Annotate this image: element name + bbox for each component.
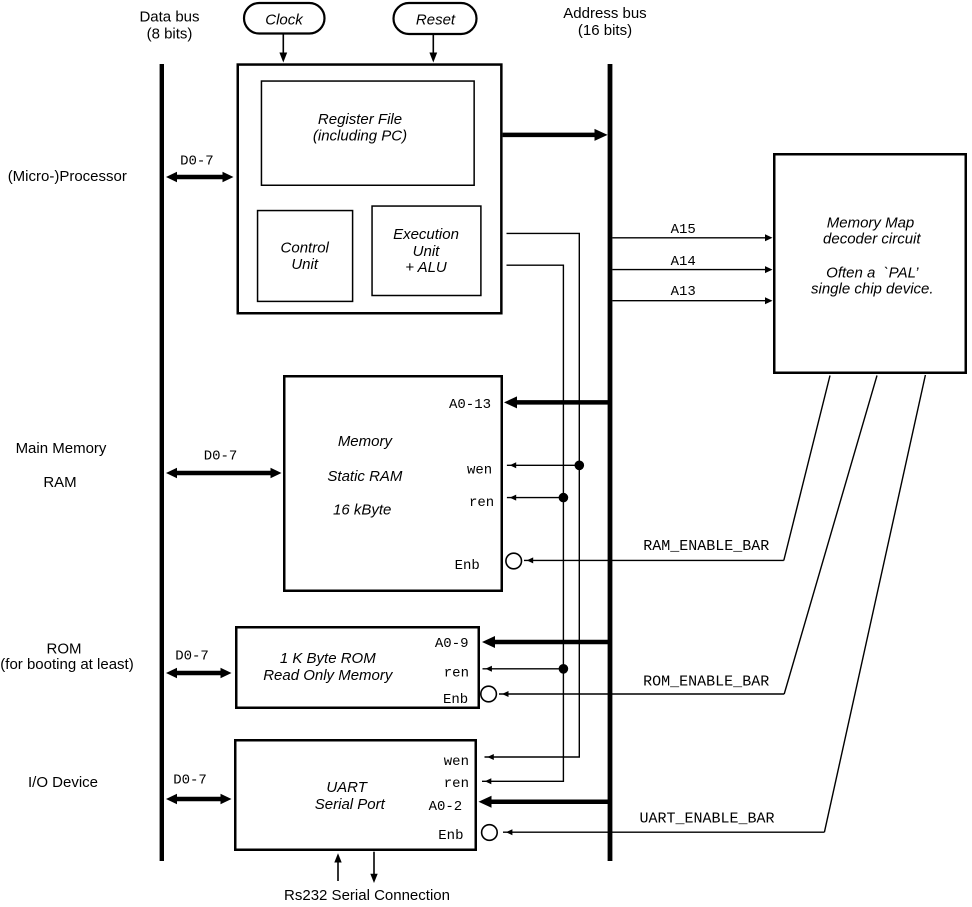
svg-text:wen: wen bbox=[444, 754, 469, 770]
svg-text:(16 bits): (16 bits) bbox=[578, 22, 632, 39]
svg-text:Unit: Unit bbox=[291, 256, 319, 273]
svg-text:Enb: Enb bbox=[438, 828, 463, 844]
svg-text:D0-7: D0-7 bbox=[175, 649, 209, 665]
svg-text:Memory Map: Memory Map bbox=[827, 215, 915, 232]
svg-text:(for booting at least): (for booting at least) bbox=[0, 656, 133, 673]
svg-text:(8 bits): (8 bits) bbox=[147, 26, 193, 43]
svg-text:(including PC): (including PC) bbox=[313, 128, 407, 145]
svg-text:Main Memory: Main Memory bbox=[16, 440, 107, 457]
svg-text:Unit: Unit bbox=[413, 243, 441, 260]
svg-text:ROM: ROM bbox=[47, 641, 82, 658]
svg-text:Enb: Enb bbox=[455, 558, 480, 574]
svg-text:Address bus: Address bus bbox=[563, 5, 646, 22]
svg-text:A15: A15 bbox=[671, 222, 696, 238]
svg-text:Often a `PAL’: Often a `PAL’ bbox=[826, 265, 919, 282]
svg-text:Clock: Clock bbox=[265, 11, 304, 28]
svg-text:ren: ren bbox=[444, 666, 469, 682]
svg-text:Rs232 Serial Connection: Rs232 Serial Connection bbox=[284, 887, 450, 904]
svg-text:ren: ren bbox=[469, 495, 494, 511]
svg-text:Execution: Execution bbox=[393, 226, 459, 243]
svg-text:UART_ENABLE_BAR: UART_ENABLE_BAR bbox=[639, 810, 774, 827]
svg-text:RAM_ENABLE_BAR: RAM_ENABLE_BAR bbox=[643, 538, 769, 555]
svg-text:A14: A14 bbox=[671, 254, 696, 270]
svg-text:A0-2: A0-2 bbox=[429, 799, 463, 815]
svg-text:A0-9: A0-9 bbox=[435, 636, 469, 652]
svg-text:RAM: RAM bbox=[43, 474, 76, 491]
svg-text:(Micro-)Processor: (Micro-)Processor bbox=[8, 168, 127, 185]
svg-text:Static RAM: Static RAM bbox=[327, 468, 403, 485]
svg-text:ROM_ENABLE_BAR: ROM_ENABLE_BAR bbox=[643, 674, 769, 691]
svg-text:D0-7: D0-7 bbox=[173, 773, 207, 789]
svg-text:ren: ren bbox=[444, 776, 469, 792]
svg-text:+ ALU: + ALU bbox=[405, 259, 447, 276]
svg-text:A13: A13 bbox=[671, 284, 696, 300]
svg-text:decoder circuit: decoder circuit bbox=[823, 231, 921, 248]
svg-text:Memory: Memory bbox=[338, 433, 394, 450]
svg-text:Data bus: Data bus bbox=[139, 9, 199, 26]
svg-text:Reset: Reset bbox=[416, 11, 456, 28]
svg-text:D0-7: D0-7 bbox=[204, 449, 238, 465]
svg-text:1 K Byte ROM: 1 K Byte ROM bbox=[280, 650, 376, 667]
svg-text:I/O Device: I/O Device bbox=[28, 774, 98, 791]
svg-text:Control: Control bbox=[281, 240, 330, 257]
svg-text:Serial Port: Serial Port bbox=[315, 796, 386, 813]
svg-text:UART: UART bbox=[326, 779, 368, 796]
svg-text:Register File: Register File bbox=[318, 111, 402, 128]
svg-text:Read Only Memory: Read Only Memory bbox=[263, 667, 394, 684]
svg-text:Enb: Enb bbox=[443, 692, 468, 708]
svg-text:wen: wen bbox=[467, 462, 492, 478]
svg-text:16 kByte: 16 kByte bbox=[333, 502, 391, 519]
svg-text:A0-13: A0-13 bbox=[449, 397, 491, 413]
svg-text:D0-7: D0-7 bbox=[180, 153, 214, 169]
svg-text:single chip device.: single chip device. bbox=[811, 281, 934, 298]
